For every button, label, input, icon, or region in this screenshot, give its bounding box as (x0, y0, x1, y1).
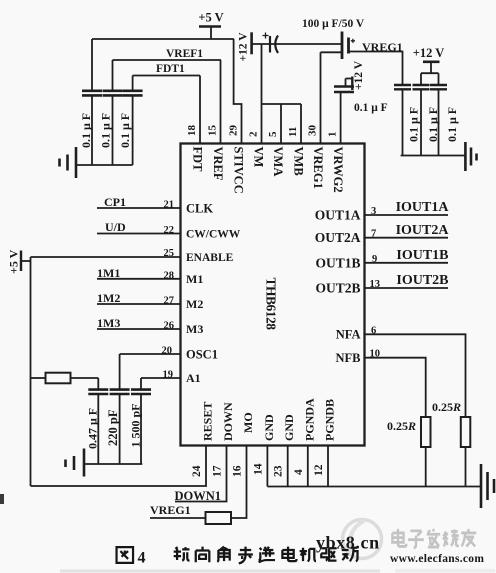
watermark chinese text elecfans (392, 529, 476, 548)
svg-text:0.25R: 0.25R (432, 400, 461, 414)
svg-text:VMA: VMA (271, 147, 285, 177)
svg-text:26: 26 (164, 321, 175, 332)
label DOWN1 (175, 489, 222, 503)
svg-text:100 μ F/50 V: 100 μ F/50 V (302, 18, 365, 30)
scan texture band bottom (60, 569, 495, 573)
label 0.1uF C8 (426, 107, 440, 142)
watermark ybx8.cn (316, 533, 380, 553)
label 1500pF rotated (129, 403, 143, 447)
wire OUT1B pin 9 IOUT1B (365, 262, 449, 264)
capacitor C10 0.47uF (88, 378, 108, 464)
svg-text:0.1 μ F: 0.1 μ F (99, 113, 113, 148)
label +12V rotated top center (238, 32, 250, 62)
wire +12V bus to caps C8 C9 (421, 73, 439, 85)
U1 pin names bottom row (201, 398, 337, 441)
svg-text:THB6128: THB6128 (264, 278, 279, 331)
svg-text:1M3: 1M3 (97, 316, 120, 330)
wire ground bus top-left (76, 164, 133, 166)
svg-text:29: 29 (228, 125, 240, 137)
svg-text:M3: M3 (186, 322, 203, 336)
svg-text:IOUT1A: IOUT1A (396, 200, 450, 215)
ground top-left (60, 147, 77, 178)
label U/D (105, 220, 126, 234)
svg-text:FDT1: FDT1 (156, 63, 185, 75)
wire VMA VMB feed bus (262, 103, 302, 105)
wire MO pin 16 (231, 446, 247, 519)
wire +12V to VM and 100uF (252, 43, 342, 45)
svg-text:NFB: NFB (336, 351, 361, 365)
watermark logo circle (343, 520, 382, 559)
power +12V top right symbol (423, 62, 440, 73)
svg-text:+5 V: +5 V (198, 11, 223, 25)
svg-text:VM: VM (252, 147, 266, 168)
wire ground bus top-right (401, 155, 466, 157)
wire VMA pin 5 stub (280, 104, 282, 144)
capacitor C5 100uF/50V (342, 32, 355, 60)
wire GND pin 14 (266, 446, 268, 487)
svg-text:4: 4 (293, 469, 305, 475)
U1 pin names top row (191, 147, 346, 194)
svg-text:14: 14 (252, 463, 264, 475)
label +5V rotated left (7, 249, 21, 274)
wire A1 pin 19 (141, 377, 181, 379)
svg-text:7: 7 (371, 229, 376, 240)
capacitor C11 220pF (110, 354, 130, 464)
svg-text:4: 4 (138, 550, 146, 567)
wire PGNDB pin 12 (327, 446, 329, 487)
svg-text:DOWN: DOWN (221, 402, 235, 441)
label 0.1uF horizontal (C6) (354, 102, 388, 114)
svg-text:0.25R: 0.25R (387, 419, 416, 433)
svg-text:11: 11 (287, 127, 299, 137)
svg-text:IOUT2B: IOUT2B (396, 273, 448, 288)
svg-text:12: 12 (313, 464, 325, 476)
wire ground rail bottom (267, 486, 481, 488)
svg-text:13: 13 (370, 279, 381, 290)
svg-text:19: 19 (163, 370, 174, 381)
label +12V rotated small (353, 60, 365, 90)
wire VREG1 net to right caps (349, 52, 403, 86)
resistor R3 0.25R (right) (461, 417, 471, 487)
svg-text:VRWG2: VRWG2 (331, 147, 345, 193)
label VREG1 bottom (150, 503, 191, 517)
wire GND pin 23 (287, 446, 289, 487)
capacitor C9 0.1uF (right 3) (430, 85, 447, 156)
svg-text:23: 23 (273, 465, 285, 477)
svg-text:24: 24 (191, 465, 203, 477)
wire PGNDA pin 4 (307, 446, 309, 487)
svg-text:IOUT1B: IOUT1B (396, 248, 448, 263)
svg-text:21: 21 (164, 200, 175, 211)
svg-text:1 500 pF: 1 500 pF (129, 403, 143, 447)
resistor R4 0.25R (left) (421, 417, 431, 487)
label 0.47uF rotated (86, 408, 100, 449)
svg-text:CP1: CP1 (104, 195, 126, 209)
svg-text:ENABLE: ENABLE (186, 252, 234, 264)
wire ground bus bottom-left (84, 463, 142, 465)
watermark www.elecfans.com (390, 553, 484, 565)
wire +5V left rail (30, 257, 32, 486)
svg-text:M2: M2 (186, 297, 203, 311)
ground top-right (465, 142, 476, 171)
svg-text:GND: GND (282, 414, 296, 441)
svg-text:A1: A1 (186, 371, 201, 385)
svg-text:1: 1 (327, 132, 339, 138)
label FDT1 (156, 63, 185, 75)
svg-text:0.1 μ F: 0.1 μ F (426, 107, 440, 142)
svg-text:20: 20 (162, 346, 173, 357)
U1 pin names left column (186, 202, 241, 386)
svg-text:3: 3 (371, 206, 376, 217)
U1 pin numbers right column (370, 206, 381, 360)
label CP1 (104, 195, 126, 209)
svg-text:PGNDA: PGNDA (302, 398, 316, 441)
svg-text:22: 22 (164, 225, 175, 236)
svg-text:+12 V: +12 V (413, 46, 445, 60)
wire CW/CWW pin 22 (97, 233, 181, 235)
svg-text:NFA: NFA (336, 327, 361, 341)
svg-text:10: 10 (370, 349, 381, 360)
resistor R2 (VREG1) (150, 512, 231, 524)
svg-text:CLK: CLK (186, 202, 213, 216)
label 0.1uF C1 (79, 113, 93, 148)
capacitor C1 0.1uF (left 1) (82, 39, 102, 165)
caption text hangxiangjiao stepper motor drive (174, 547, 358, 564)
label 0.1uF C2 (99, 113, 113, 148)
wire NFB pin 10 (365, 358, 426, 417)
wire OSC1 pin 20 (120, 353, 181, 355)
label VREG1 top (362, 40, 403, 54)
svg-text:+5 V: +5 V (7, 249, 21, 274)
power +5V left rotated symbol (21, 251, 31, 272)
node VREF1 wire (113, 59, 222, 61)
svg-text:DOWN1: DOWN1 (175, 489, 222, 503)
wire VREG1 pin 30 to 100uF left plate (321, 52, 343, 143)
wire M3 pin 26 (97, 328, 181, 330)
scan smudge left edge (0, 494, 4, 504)
svg-text:VREG1: VREG1 (362, 40, 403, 54)
svg-text:0.1 μ F: 0.1 μ F (445, 107, 459, 142)
svg-text:30: 30 (307, 125, 319, 137)
svg-text:27: 27 (164, 296, 175, 307)
label +5V top (198, 11, 223, 25)
caption figure 4 (117, 547, 134, 563)
label IOUT2A (396, 223, 450, 238)
wire M1 pin 28 (97, 278, 181, 280)
svg-text:MO: MO (241, 412, 255, 433)
label +12V top right (413, 46, 445, 60)
capacitor C4 polarized series (on +12V wire) (263, 33, 279, 54)
label IOUT1A (396, 200, 450, 215)
svg-text:OUT2A: OUT2A (315, 230, 361, 245)
wire DOWN pin 17 DOWN1 stub (175, 446, 227, 502)
label 0.1uF C7 (407, 107, 421, 142)
svg-text:18: 18 (186, 125, 198, 137)
label VREF1 (166, 48, 203, 60)
wire RESET pin 24 to +5V rail (31, 446, 207, 487)
capacitor C2 0.1uF (left 2) (103, 60, 123, 165)
capacitor C6 0.1uF at VRWG2 (334, 87, 354, 144)
label 1M3 (97, 316, 120, 330)
svg-text:1M2: 1M2 (97, 291, 120, 305)
label IOUT2B (396, 273, 448, 288)
svg-text:1M1: 1M1 (97, 266, 120, 280)
svg-text:28: 28 (164, 270, 175, 281)
ground bottom-left (66, 449, 85, 477)
svg-text:6: 6 (371, 325, 376, 336)
wire OUT2A pin 7 IOUT2A (365, 237, 449, 239)
label 1M2 (97, 291, 120, 305)
svg-text:CW/CWW: CW/CWW (186, 229, 241, 241)
wire VM pin 2 stub (261, 44, 263, 144)
svg-text:VREG1: VREG1 (150, 503, 191, 517)
svg-text:U/D: U/D (105, 220, 126, 234)
svg-text:RESET: RESET (201, 402, 215, 441)
svg-text:0.1 μ F: 0.1 μ F (407, 107, 421, 142)
svg-text:0.1 μ F: 0.1 μ F (118, 113, 132, 148)
wire CLK pin 21 (97, 207, 181, 209)
label 1M1 (97, 266, 120, 280)
svg-text:15: 15 (207, 125, 219, 137)
svg-text:PGNDB: PGNDB (323, 399, 337, 441)
ground bottom-right (481, 464, 494, 508)
svg-text:16: 16 (232, 465, 244, 477)
wire VREF pin 15 stub (220, 60, 222, 144)
svg-text:+12 V: +12 V (238, 32, 250, 62)
resistor R1 (left) (31, 373, 99, 384)
label 0.25R right (432, 400, 461, 414)
wire +5V top rail to STIVCC feed (92, 38, 234, 40)
capacitor C7 0.1uF (right 1) (394, 85, 411, 156)
op-amp U1 THB6128 chip body (181, 144, 365, 446)
capacitor C3 0.1uF (left 3) (123, 76, 143, 166)
svg-text:+12 V: +12 V (353, 60, 365, 90)
U1 pin numbers top row (186, 125, 339, 138)
svg-text:5: 5 (267, 131, 279, 137)
power +12V rotated bar (top center) (250, 32, 253, 54)
svg-text:VREG1: VREG1 (311, 147, 325, 189)
svg-text:IOUT2A: IOUT2A (396, 223, 450, 238)
svg-text:0.1 μ F: 0.1 μ F (354, 102, 388, 114)
label 220pF rotated (106, 409, 120, 446)
label IOUT1B (396, 248, 448, 263)
svg-text:OUT1B: OUT1B (315, 255, 360, 270)
node FDT1 wire (133, 75, 200, 77)
capacitor C12 1500pF (131, 378, 151, 464)
U1 pin names right column (315, 208, 361, 366)
svg-text:STIVCC: STIVCC (232, 147, 246, 194)
svg-text:VMB: VMB (292, 147, 306, 176)
wire FDT pin 18 stub (199, 76, 201, 144)
svg-text:GND: GND (262, 414, 276, 441)
wire OUT1A pin 3 IOUT1A (365, 214, 449, 216)
power +5V top symbol (199, 27, 221, 40)
U1 part number THB6128 (264, 278, 279, 331)
wire ENABLE pin 25 (31, 256, 181, 258)
U1 pin numbers bottom row (191, 463, 325, 477)
svg-text:FDT: FDT (191, 147, 205, 173)
power +12V small rotated (VRWG2 cap) (346, 77, 353, 91)
svg-text:220 pF: 220 pF (106, 409, 120, 446)
wire OUT2B pin 13 IOUT2B (365, 287, 449, 289)
wire VMB pin 11 stub (300, 104, 302, 144)
svg-text:0.47 μ F: 0.47 μ F (86, 408, 100, 449)
label 100uF/50V (302, 18, 365, 30)
svg-text:17: 17 (212, 465, 224, 477)
capacitor C8 0.1uF (right 2) (413, 85, 430, 156)
svg-text:2: 2 (248, 131, 260, 137)
svg-text:M1: M1 (186, 272, 203, 286)
svg-text:VREF1: VREF1 (166, 48, 203, 60)
wire NFA pin 6 (365, 334, 466, 417)
svg-text:www.elecfans.com: www.elecfans.com (390, 553, 484, 565)
svg-text:VREF: VREF (211, 147, 225, 181)
svg-text:OUT1A: OUT1A (315, 208, 361, 223)
wire STIVCC pin 29 feed from +5V (234, 39, 242, 144)
svg-text:OUT2B: OUT2B (315, 281, 360, 296)
wire M2 pin 27 (97, 303, 181, 305)
label 0.25R left (387, 419, 416, 433)
svg-text:9: 9 (372, 254, 377, 265)
label 0.1uF C3 (118, 113, 132, 148)
svg-text:25: 25 (164, 248, 175, 259)
U1 pin numbers left column (162, 200, 175, 381)
label 0.1uF C9 (445, 107, 459, 142)
svg-text:OSC1: OSC1 (186, 348, 218, 362)
svg-text:0.1 μ F: 0.1 μ F (79, 113, 93, 148)
